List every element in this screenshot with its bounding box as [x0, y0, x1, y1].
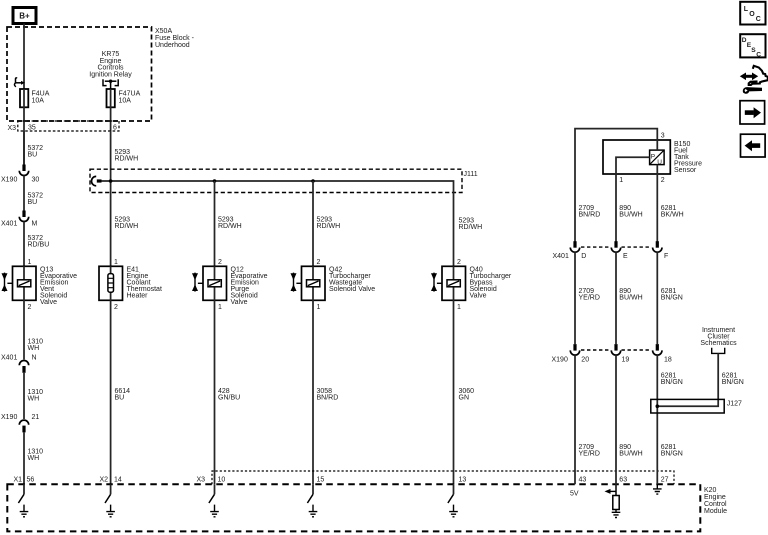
icon forward arrow button — [740, 101, 765, 124]
wire 5293 RD/WH J111 to Q12 — [214, 181, 216, 266]
wire 3058 BN/RD to X3 15 — [312, 300, 314, 484]
svg-text:BN/GN: BN/GN — [722, 379, 744, 386]
wire pin 2 from sensor to col F — [656, 165, 658, 242]
in-line connector X401 pin M — [1, 211, 38, 228]
label X3 — [8, 125, 118, 133]
fuse block X50A dashed box — [7, 27, 152, 121]
svg-text:BU: BU — [28, 199, 38, 206]
svg-text:L: L — [744, 6, 749, 13]
svg-text:BN/GN: BN/GN — [661, 451, 683, 458]
svg-text:C: C — [756, 51, 761, 58]
svg-text:X190: X190 — [552, 357, 568, 364]
svg-text:5V: 5V — [570, 491, 579, 498]
svg-text:X50A: X50A — [155, 28, 172, 35]
junction at J111 col3 — [213, 179, 217, 183]
junction in J127 — [656, 404, 660, 408]
fuse F4UA 10A — [20, 89, 28, 107]
svg-text:BK/WH: BK/WH — [661, 212, 684, 219]
svg-text:X3: X3 — [8, 125, 17, 132]
svg-text:10: 10 — [218, 477, 226, 484]
solenoid valve Q13 — [2, 266, 37, 300]
heater E41 — [99, 266, 123, 300]
icon LOC button — [740, 2, 765, 25]
svg-text:BN/RD: BN/RD — [317, 395, 339, 402]
connector row X401 D E F — [553, 241, 669, 260]
svg-text:56: 56 — [27, 477, 35, 484]
in-line connector X401 pin N — [1, 355, 37, 373]
svg-text:20: 20 — [581, 357, 589, 364]
wire 428 GN/BU to X3 10 — [214, 300, 216, 484]
svg-text:BN/RD: BN/RD — [579, 212, 601, 219]
wire 6281 BN/GN F to X190 18 — [656, 252, 658, 344]
label K20 Engine Control Module — [704, 487, 727, 515]
svg-text:X1: X1 — [14, 477, 23, 484]
svg-text:X401: X401 — [1, 221, 17, 228]
svg-text:BN/GN: BN/GN — [661, 295, 683, 302]
svg-text:43: 43 — [579, 477, 587, 484]
svg-text:13: 13 — [459, 477, 467, 484]
driver switch and ground col1 — [18, 484, 28, 517]
driver switch and ground col4 — [307, 484, 317, 517]
svg-text:D: D — [581, 253, 586, 260]
driver switch and ground col5 — [448, 484, 458, 517]
resistor at pin 63 — [613, 496, 619, 510]
svg-text:27: 27 — [661, 477, 669, 484]
svg-text:BU/WH: BU/WH — [619, 295, 642, 302]
wire F47UA to X3 pin 6 — [110, 89, 112, 131]
J111 internal bus wire — [101, 181, 454, 193]
svg-text:Valve: Valve — [231, 299, 248, 306]
svg-text:P: P — [651, 153, 655, 160]
svg-text:X2: X2 — [100, 477, 109, 484]
solenoid valve Q40 — [431, 266, 466, 300]
svg-text:1: 1 — [28, 259, 32, 266]
svg-text:2: 2 — [114, 304, 118, 311]
wire 5372 BU to X190 — [23, 131, 25, 165]
svg-text:YE/RD: YE/RD — [579, 295, 600, 302]
wire 890 BU/WH 19 to pin 63 — [615, 355, 617, 484]
driver switch and ground col3 — [209, 484, 219, 517]
svg-text:6: 6 — [113, 125, 117, 132]
junction at J111 col4 — [311, 179, 315, 183]
svg-text:BU: BU — [115, 395, 125, 402]
wire 6281 BN/GN from cluster to J127 — [657, 353, 718, 406]
wire 3060 GN to X3 13 — [453, 300, 455, 484]
svg-text:O: O — [749, 11, 755, 18]
off-page bracket — [712, 348, 725, 354]
svg-text:YE/RD: YE/RD — [579, 451, 600, 458]
svg-text:GN/BU: GN/BU — [218, 395, 240, 402]
label Instrument Cluster Schematics — [700, 327, 737, 347]
svg-text:F4UA: F4UA — [32, 91, 50, 98]
svg-text:B+: B+ — [19, 12, 30, 21]
svg-text:Underhood: Underhood — [155, 42, 190, 49]
svg-text:RD/WH: RD/WH — [115, 223, 139, 230]
connector row X190 20 19 18 — [552, 344, 672, 363]
ground at pin 27 — [653, 484, 662, 494]
fuel tank pressure sensor B150 box — [603, 140, 670, 174]
svg-text:21: 21 — [32, 414, 40, 421]
icon DESC button — [740, 34, 765, 58]
svg-text:30: 30 — [32, 177, 40, 184]
label E41 Engine Coolant Thermostat Heater — [127, 267, 162, 300]
connector X3 dotted box at ECM — [212, 471, 674, 484]
icon component-view arrows and wrench — [740, 66, 768, 94]
svg-text:Fuse Block -: Fuse Block - — [155, 35, 195, 42]
J111 left connector — [91, 176, 96, 185]
label Q12 Evaporative Emission Purge Solenoid Valve — [231, 267, 268, 307]
svg-text:2: 2 — [457, 259, 461, 266]
splice pack J111 dashed box — [90, 169, 462, 192]
svg-text:15: 15 — [317, 477, 325, 484]
svg-text:2: 2 — [28, 304, 32, 311]
battery clip symbol — [14, 78, 25, 87]
svg-text:2: 2 — [218, 259, 222, 266]
svg-text:Solenoid Valve: Solenoid Valve — [329, 286, 375, 293]
label Q13 Evaporative Emission Vent Solenoid Valve — [40, 267, 77, 307]
svg-text:Ignition Relay: Ignition Relay — [89, 72, 132, 79]
connector X3 dashed box — [18, 121, 119, 131]
svg-text:Schematics: Schematics — [700, 340, 737, 347]
svg-text:RD/WH: RD/WH — [218, 223, 242, 230]
wire 2709 YE/RD D to X190 20 — [574, 252, 576, 344]
icon back arrow button — [741, 134, 766, 157]
svg-text:Valve: Valve — [470, 293, 487, 300]
fuse F47UA 10A — [107, 89, 115, 107]
svg-text:10A: 10A — [119, 98, 132, 105]
wire 1310 WH to X1 56 — [23, 432, 25, 484]
svg-text:E: E — [623, 253, 628, 260]
wire pin 3 loop to col D — [575, 129, 657, 242]
wire 2709 YE/RD 20 to pin 43 — [574, 355, 576, 484]
svg-text:WH: WH — [28, 345, 40, 352]
svg-text:10A: 10A — [32, 98, 45, 105]
svg-text:X401: X401 — [1, 355, 17, 362]
svg-text:N: N — [32, 355, 37, 362]
svg-text:RD/WH: RD/WH — [459, 224, 483, 231]
svg-text:KR75: KR75 — [102, 51, 120, 58]
svg-text:J111: J111 — [464, 171, 478, 178]
svg-text:X3: X3 — [197, 477, 206, 484]
svg-text:X401: X401 — [553, 253, 569, 260]
svg-text:BN/GN: BN/GN — [661, 379, 683, 386]
svg-text:M: M — [32, 221, 38, 228]
solenoid valve Q42 — [291, 266, 326, 300]
ECM K20 dashed box — [7, 484, 700, 531]
wire 890 BU/WH E to X190 19 — [615, 252, 617, 344]
svg-text:18: 18 — [664, 357, 672, 364]
wire 6281 BN/GN 18 to J127 — [656, 355, 658, 484]
svg-text:Sensor: Sensor — [674, 167, 697, 174]
svg-text:Heater: Heater — [127, 293, 149, 300]
svg-text:1: 1 — [317, 304, 321, 311]
svg-text:Control: Control — [704, 501, 727, 508]
wire 1310 WH to X190 21 — [23, 373, 25, 419]
svg-text:GN: GN — [459, 395, 470, 402]
signal arrow at pin 63 — [605, 484, 617, 495]
relay KR75 label — [89, 51, 132, 79]
svg-text:X190: X190 — [1, 414, 17, 421]
svg-text:BU: BU — [28, 152, 38, 159]
wire 5372 RD/BU to Q13 — [23, 222, 25, 267]
svg-text:1: 1 — [619, 177, 623, 184]
svg-text:Controls: Controls — [97, 65, 124, 72]
driver switch and ground col2 — [105, 484, 115, 517]
in-line connector X190 pin 21 — [1, 414, 39, 432]
svg-text:J127: J127 — [727, 401, 742, 408]
sensor element P/U — [650, 150, 665, 166]
svg-text:35: 35 — [28, 125, 36, 132]
svg-text:WH: WH — [28, 455, 40, 462]
label X50A Fuse Block - Underhood — [155, 28, 195, 49]
svg-text:63: 63 — [619, 477, 627, 484]
svg-text:BU/WH: BU/WH — [619, 451, 642, 458]
wire 5293 RD/WH from X3 pin 6 through J111 to E41 — [110, 131, 112, 266]
svg-text:14: 14 — [114, 477, 122, 484]
svg-text:2: 2 — [317, 259, 321, 266]
svg-text:Engine: Engine — [704, 494, 726, 501]
svg-text:K20: K20 — [704, 487, 717, 494]
in-line connector X190 pin 30 — [1, 165, 39, 184]
ground at pin 63 — [612, 510, 621, 518]
svg-text:1: 1 — [457, 304, 461, 311]
svg-text:3: 3 — [661, 133, 665, 140]
svg-text:1: 1 — [114, 259, 118, 266]
svg-text:X190: X190 — [1, 177, 17, 184]
wire 5293 RD/WH J111 to Q40 — [453, 193, 455, 267]
wire 6614 BU to X2 14 — [110, 300, 112, 484]
svg-text:RD/WH: RD/WH — [317, 223, 341, 230]
svg-text:RD/BU: RD/BU — [28, 242, 50, 249]
wire pin 1 from sensor to col E — [616, 157, 650, 241]
svg-text:Valve: Valve — [40, 299, 57, 306]
svg-text:Module: Module — [704, 508, 727, 515]
wire 5293 RD/WH J111 to Q42 — [312, 181, 314, 266]
svg-text:WH: WH — [28, 396, 40, 403]
label B150 Fuel Tank Pressure Sensor — [674, 141, 702, 174]
wire 1310 WH to X401 N — [23, 300, 25, 359]
solenoid valve Q12 — [192, 266, 227, 300]
svg-text:C: C — [756, 16, 761, 23]
label Q40 Turbocharger Bypass Solenoid Valve — [470, 267, 512, 300]
wire B+ to fuse F4UA — [23, 24, 25, 90]
svg-text:2: 2 — [661, 177, 665, 184]
battery feed B+ — [13, 8, 36, 24]
splice J127 box — [651, 399, 724, 413]
wire 5372 BU to X401 — [23, 176, 25, 212]
svg-text:19: 19 — [622, 357, 630, 364]
relay KR75 terminal — [103, 79, 118, 89]
svg-text:F47UA: F47UA — [119, 91, 141, 98]
svg-text:F: F — [664, 253, 668, 260]
wire F4UA to X3 pin 35 — [23, 89, 25, 165]
svg-text:RD/WH: RD/WH — [115, 156, 139, 163]
label Q42 Turbocharger Wastegate Solenoid Valve — [329, 267, 375, 294]
junction at J111 col2 — [109, 179, 113, 183]
svg-text:1: 1 — [218, 304, 222, 311]
svg-text:BU/WH: BU/WH — [619, 212, 642, 219]
